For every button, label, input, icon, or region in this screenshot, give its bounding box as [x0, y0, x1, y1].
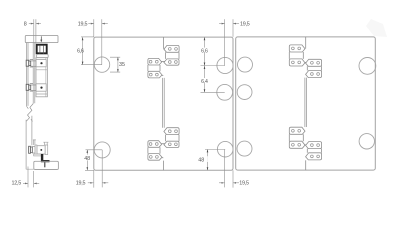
- svg-text:6,4: 6,4: [201, 79, 208, 85]
- dimension 8 arrows and text: [31, 23, 34, 25]
- dimension 19,5 bottom left: [93, 170, 95, 187]
- left view: bottom cabinet panel: [34, 161, 59, 169]
- left view: top cabinet panel: [25, 35, 58, 42]
- right view: bottom hinge: [289, 134, 303, 141]
- svg-text:12,5: 12,5: [12, 181, 22, 187]
- centerlines right column: [224, 19, 226, 65]
- bottom mech top screws: [43, 142, 48, 145]
- band below cup: [37, 54, 49, 57]
- rail division lines: [36, 70, 47, 94]
- smudge artifact top-right: [366, 19, 387, 37]
- right view: joint double line center: [305, 78, 307, 127]
- hinge 2 knuckle: [31, 85, 36, 90]
- left view: door lines (lower, below break): [26, 116, 32, 169]
- dimension 48 left: [85, 169, 94, 171]
- left view: bottom pivot mechanism body: [37, 146, 45, 154]
- dimension 12,5 arrows and text: [25, 183, 28, 185]
- middle view: cup hole circles right column: [217, 57, 233, 73]
- dimension 6,6 left with ref lines: [81, 36, 94, 38]
- svg-text:6,6: 6,6: [77, 48, 84, 54]
- centerlines left column: [101, 19, 103, 64]
- left view: door bottom edge: [26, 168, 34, 170]
- right view: joint line lower: [305, 160, 307, 170]
- svg-text:6,6: 6,6: [201, 49, 208, 55]
- cup inner slot: [40, 45, 44, 54]
- bottom mech bold L bracket: [41, 154, 50, 162]
- svg-text:19,5: 19,5: [78, 22, 88, 28]
- dimension 6,6 right: [204, 37, 206, 65]
- dimension 6,4 right: [204, 66, 206, 93]
- dimension 12,5 extension lines: [27, 167, 29, 188]
- left view: bold hinge cup (top slide): [37, 45, 47, 54]
- bottom mech left flange: [35, 145, 37, 155]
- right view: cup hole circles left column: [238, 57, 253, 72]
- dimension 35 circle diameter: [110, 57, 120, 72]
- left view: door front face lines (upper): [27, 43, 28, 107]
- dimension 19,5 top left: [93, 19, 95, 37]
- svg-text:48: 48: [198, 157, 204, 163]
- bottom mech pin into panel: [44, 162, 46, 167]
- middle view: bottom hinge: [166, 135, 179, 142]
- middle view: cup hole circles left column: [94, 57, 109, 72]
- rail inner edge line: [45, 58, 47, 97]
- svg-text:19,5: 19,5: [239, 181, 249, 187]
- right view: top hinge: [289, 52, 303, 59]
- middle view: joint double line center: [163, 78, 165, 128]
- svg-text:8: 8: [24, 22, 27, 28]
- dimension 19,5 bottom right: [232, 170, 234, 187]
- svg-text:35: 35: [119, 62, 125, 68]
- left view: dimension 8 extension lines: [33, 19, 35, 42]
- dimension 48 right: [207, 149, 209, 170]
- left view: hinge 2 plate + dot: [36, 84, 46, 91]
- hinge 1 knuckle: [31, 61, 36, 66]
- middle view: joint line upper: [162, 37, 164, 49]
- svg-text:48: 48: [84, 156, 90, 162]
- middle view: door panels outline: [94, 37, 233, 170]
- left view: door back face lines (upper): [33, 43, 35, 104]
- left view: pivot pin with arrow: [40, 36, 42, 41]
- left view: break zigzag symbol: [26, 104, 33, 122]
- right view: cup hole circles right column: [359, 58, 376, 75]
- bottom mech knuckle: [32, 147, 35, 153]
- bottom mech stem cap: [33, 140, 36, 145]
- svg-text:19,5: 19,5: [76, 181, 86, 187]
- bottom mech band below body: [34, 154, 42, 156]
- dimension 19,5 top right: [232, 19, 234, 37]
- right view: door panels outline: [236, 37, 376, 170]
- middle view: top hinge: [166, 52, 179, 59]
- bottom mech right flange: [45, 145, 48, 155]
- right view: joint line upper: [305, 37, 307, 49]
- left view: hinge 1 plate + dot: [36, 60, 46, 67]
- middle view: joint line lower: [162, 161, 164, 171]
- left view: mounting rail rect: [36, 58, 47, 97]
- svg-text:19,5: 19,5: [240, 22, 250, 28]
